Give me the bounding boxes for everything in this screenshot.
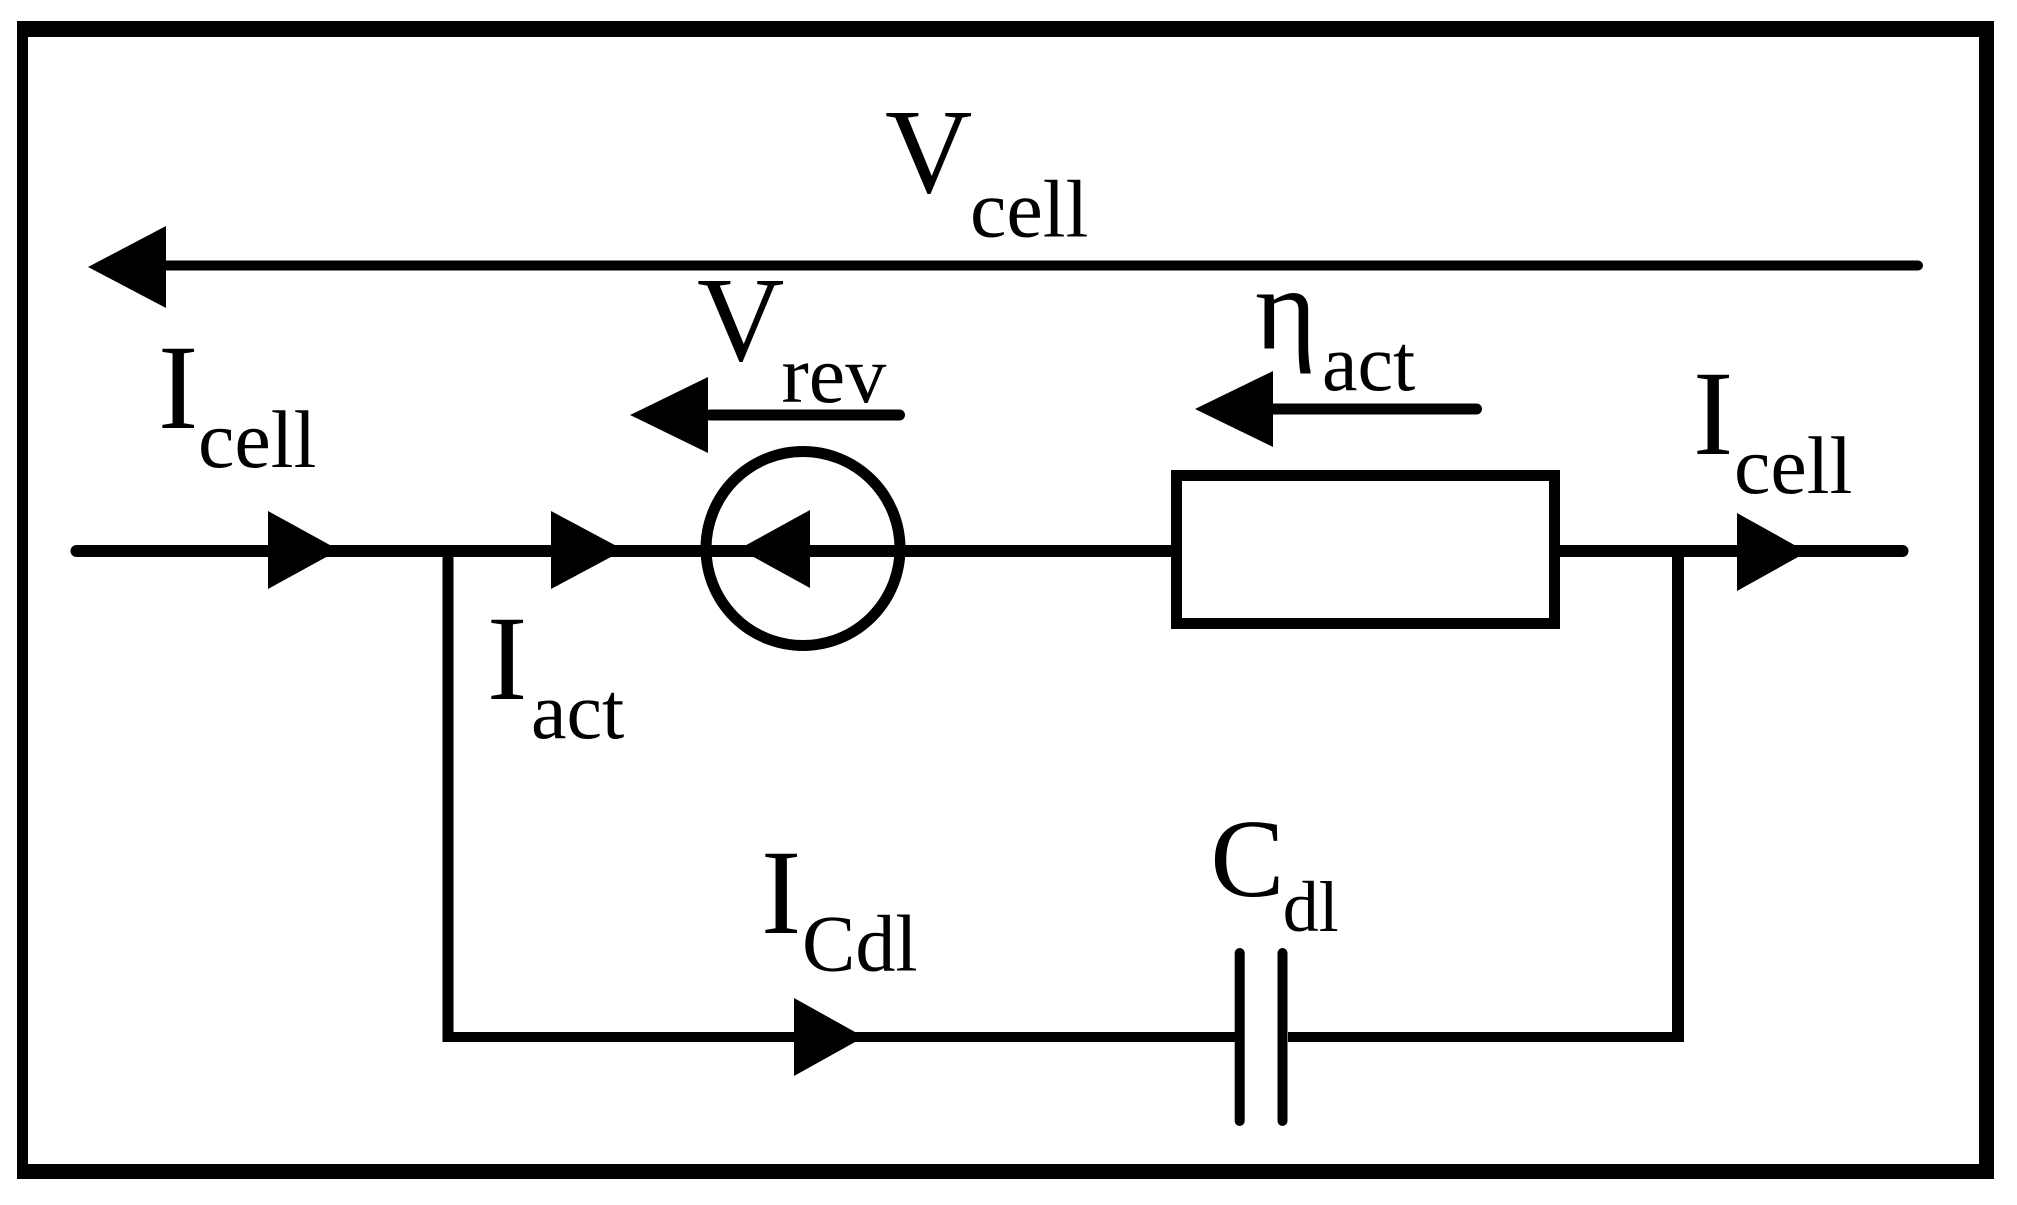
svg-text:act: act [1322,320,1415,408]
svg-text:dl: dl [1283,867,1339,947]
svg-text:I: I [158,321,198,455]
svg-text:C: C [1210,798,1284,921]
svg-text:cell: cell [1734,420,1852,511]
svg-text:Cdl: Cdl [802,901,918,989]
svg-text:I: I [1693,347,1733,481]
svg-text:act: act [531,668,624,756]
svg-text:cell: cell [198,394,316,485]
svg-text:η: η [1255,244,1317,375]
svg-text:V: V [697,253,784,387]
svg-text:V: V [885,85,972,219]
svg-text:I: I [487,592,527,726]
svg-text:cell: cell [970,164,1088,255]
svg-text:I: I [761,826,801,960]
svg-text:rev: rev [782,329,887,420]
